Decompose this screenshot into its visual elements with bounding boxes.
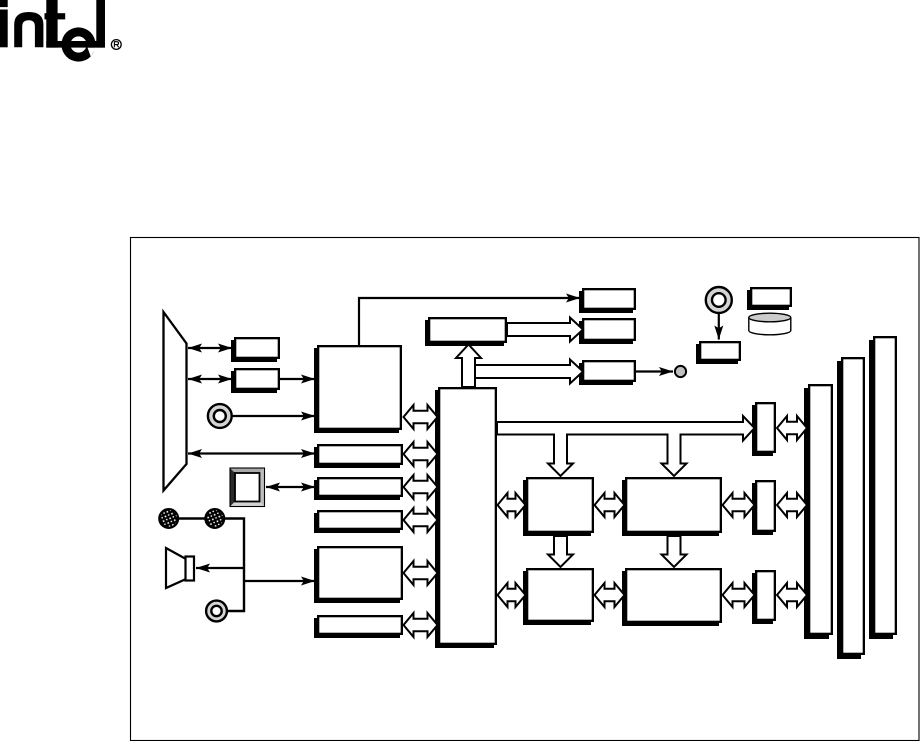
box R1 bbox=[231, 338, 279, 362]
arrow trapezoid-R2 bbox=[188, 375, 232, 384]
box A2 bbox=[579, 319, 635, 344]
box S3 bbox=[752, 571, 775, 624]
speaker bbox=[166, 548, 194, 588]
hollow arrow F to W bbox=[456, 345, 481, 388]
bus arrow L5-F bbox=[404, 561, 438, 585]
slot bar P1 bbox=[804, 385, 832, 639]
bus arrow L2-F bbox=[404, 442, 438, 466]
display connector trapezoid bbox=[164, 312, 187, 491]
hollow arrow G1 to G3 bbox=[548, 536, 573, 567]
box L2 bbox=[314, 445, 402, 468]
bus arrow L4-F bbox=[404, 508, 438, 532]
block G3 bbox=[523, 569, 593, 625]
bus arrow G1-G2 bbox=[595, 493, 625, 517]
bus arrow S1-P1 bbox=[777, 416, 807, 440]
block G1 bbox=[523, 478, 593, 536]
box L5 bbox=[314, 547, 402, 603]
bus arrow D-F bbox=[404, 405, 438, 429]
wire D top to A1 bbox=[359, 294, 580, 346]
block F (I/O controller hub) bbox=[435, 388, 496, 648]
arrow A3 to dot bbox=[636, 367, 673, 376]
bus arrow L6-F bbox=[404, 613, 438, 637]
box S1 bbox=[752, 403, 775, 456]
arrow junction to speaker bbox=[196, 564, 244, 573]
microphone dot M2 bbox=[205, 509, 224, 528]
bus arrow G2-S2 bbox=[723, 493, 755, 517]
bus arrow S2-P1 bbox=[777, 493, 807, 517]
block D (graphics/host controller) bbox=[314, 346, 401, 433]
battery cylinder bbox=[749, 313, 791, 335]
box L3 bbox=[314, 478, 402, 500]
ring connector J2 bbox=[206, 601, 227, 622]
arrow trapezoid-R1 bbox=[188, 344, 232, 353]
hollow arrow W to A2 bbox=[507, 318, 583, 342]
box A3 bbox=[579, 361, 635, 385]
gray dot node bbox=[675, 366, 686, 377]
box R2 bbox=[231, 369, 279, 393]
bus arrow F-G3 bbox=[498, 583, 526, 607]
box W (clock block) bbox=[425, 318, 506, 346]
block G2 bbox=[622, 478, 721, 536]
arrow R2 to D bbox=[280, 375, 315, 384]
arrow J1 to D bbox=[232, 412, 315, 421]
arrow junction to L5 bbox=[244, 577, 315, 586]
arrow J3 to B1 bbox=[714, 314, 723, 340]
box B2 bbox=[747, 288, 791, 310]
slot bar P2 bbox=[837, 358, 864, 659]
block G4 bbox=[622, 569, 721, 626]
hollow bus F to S1 with branches to G1 G2 bbox=[497, 416, 755, 476]
arrow trapezoid-L2 bbox=[188, 449, 315, 458]
bus arrow F-G1 bbox=[498, 493, 526, 517]
box L6 bbox=[314, 616, 402, 638]
hollow arrow branch to A3 bbox=[475, 360, 583, 384]
slot bar P3 bbox=[869, 337, 896, 639]
wire mic junction bbox=[169, 519, 244, 612]
chip socket (3D bevel) bbox=[230, 468, 265, 507]
bus arrow G4-S3 bbox=[723, 583, 755, 607]
hollow arrow G2 to G4 bbox=[662, 536, 687, 567]
bus arrow S3-P1 bbox=[777, 583, 807, 607]
ring connector J3 bbox=[706, 287, 732, 313]
bus arrow G3-G4 bbox=[595, 583, 625, 607]
arrow chip-L3 bbox=[266, 483, 315, 492]
box A1 bbox=[579, 289, 635, 313]
microphone dot M1 bbox=[159, 509, 178, 528]
box S2 bbox=[752, 481, 775, 535]
box B1 bbox=[696, 342, 740, 364]
intel logo bbox=[0, 0, 121, 62]
figure frame bbox=[131, 238, 920, 741]
bus arrow L3-F bbox=[404, 475, 438, 499]
box L4 bbox=[314, 511, 402, 533]
ring connector J1 bbox=[208, 404, 232, 428]
